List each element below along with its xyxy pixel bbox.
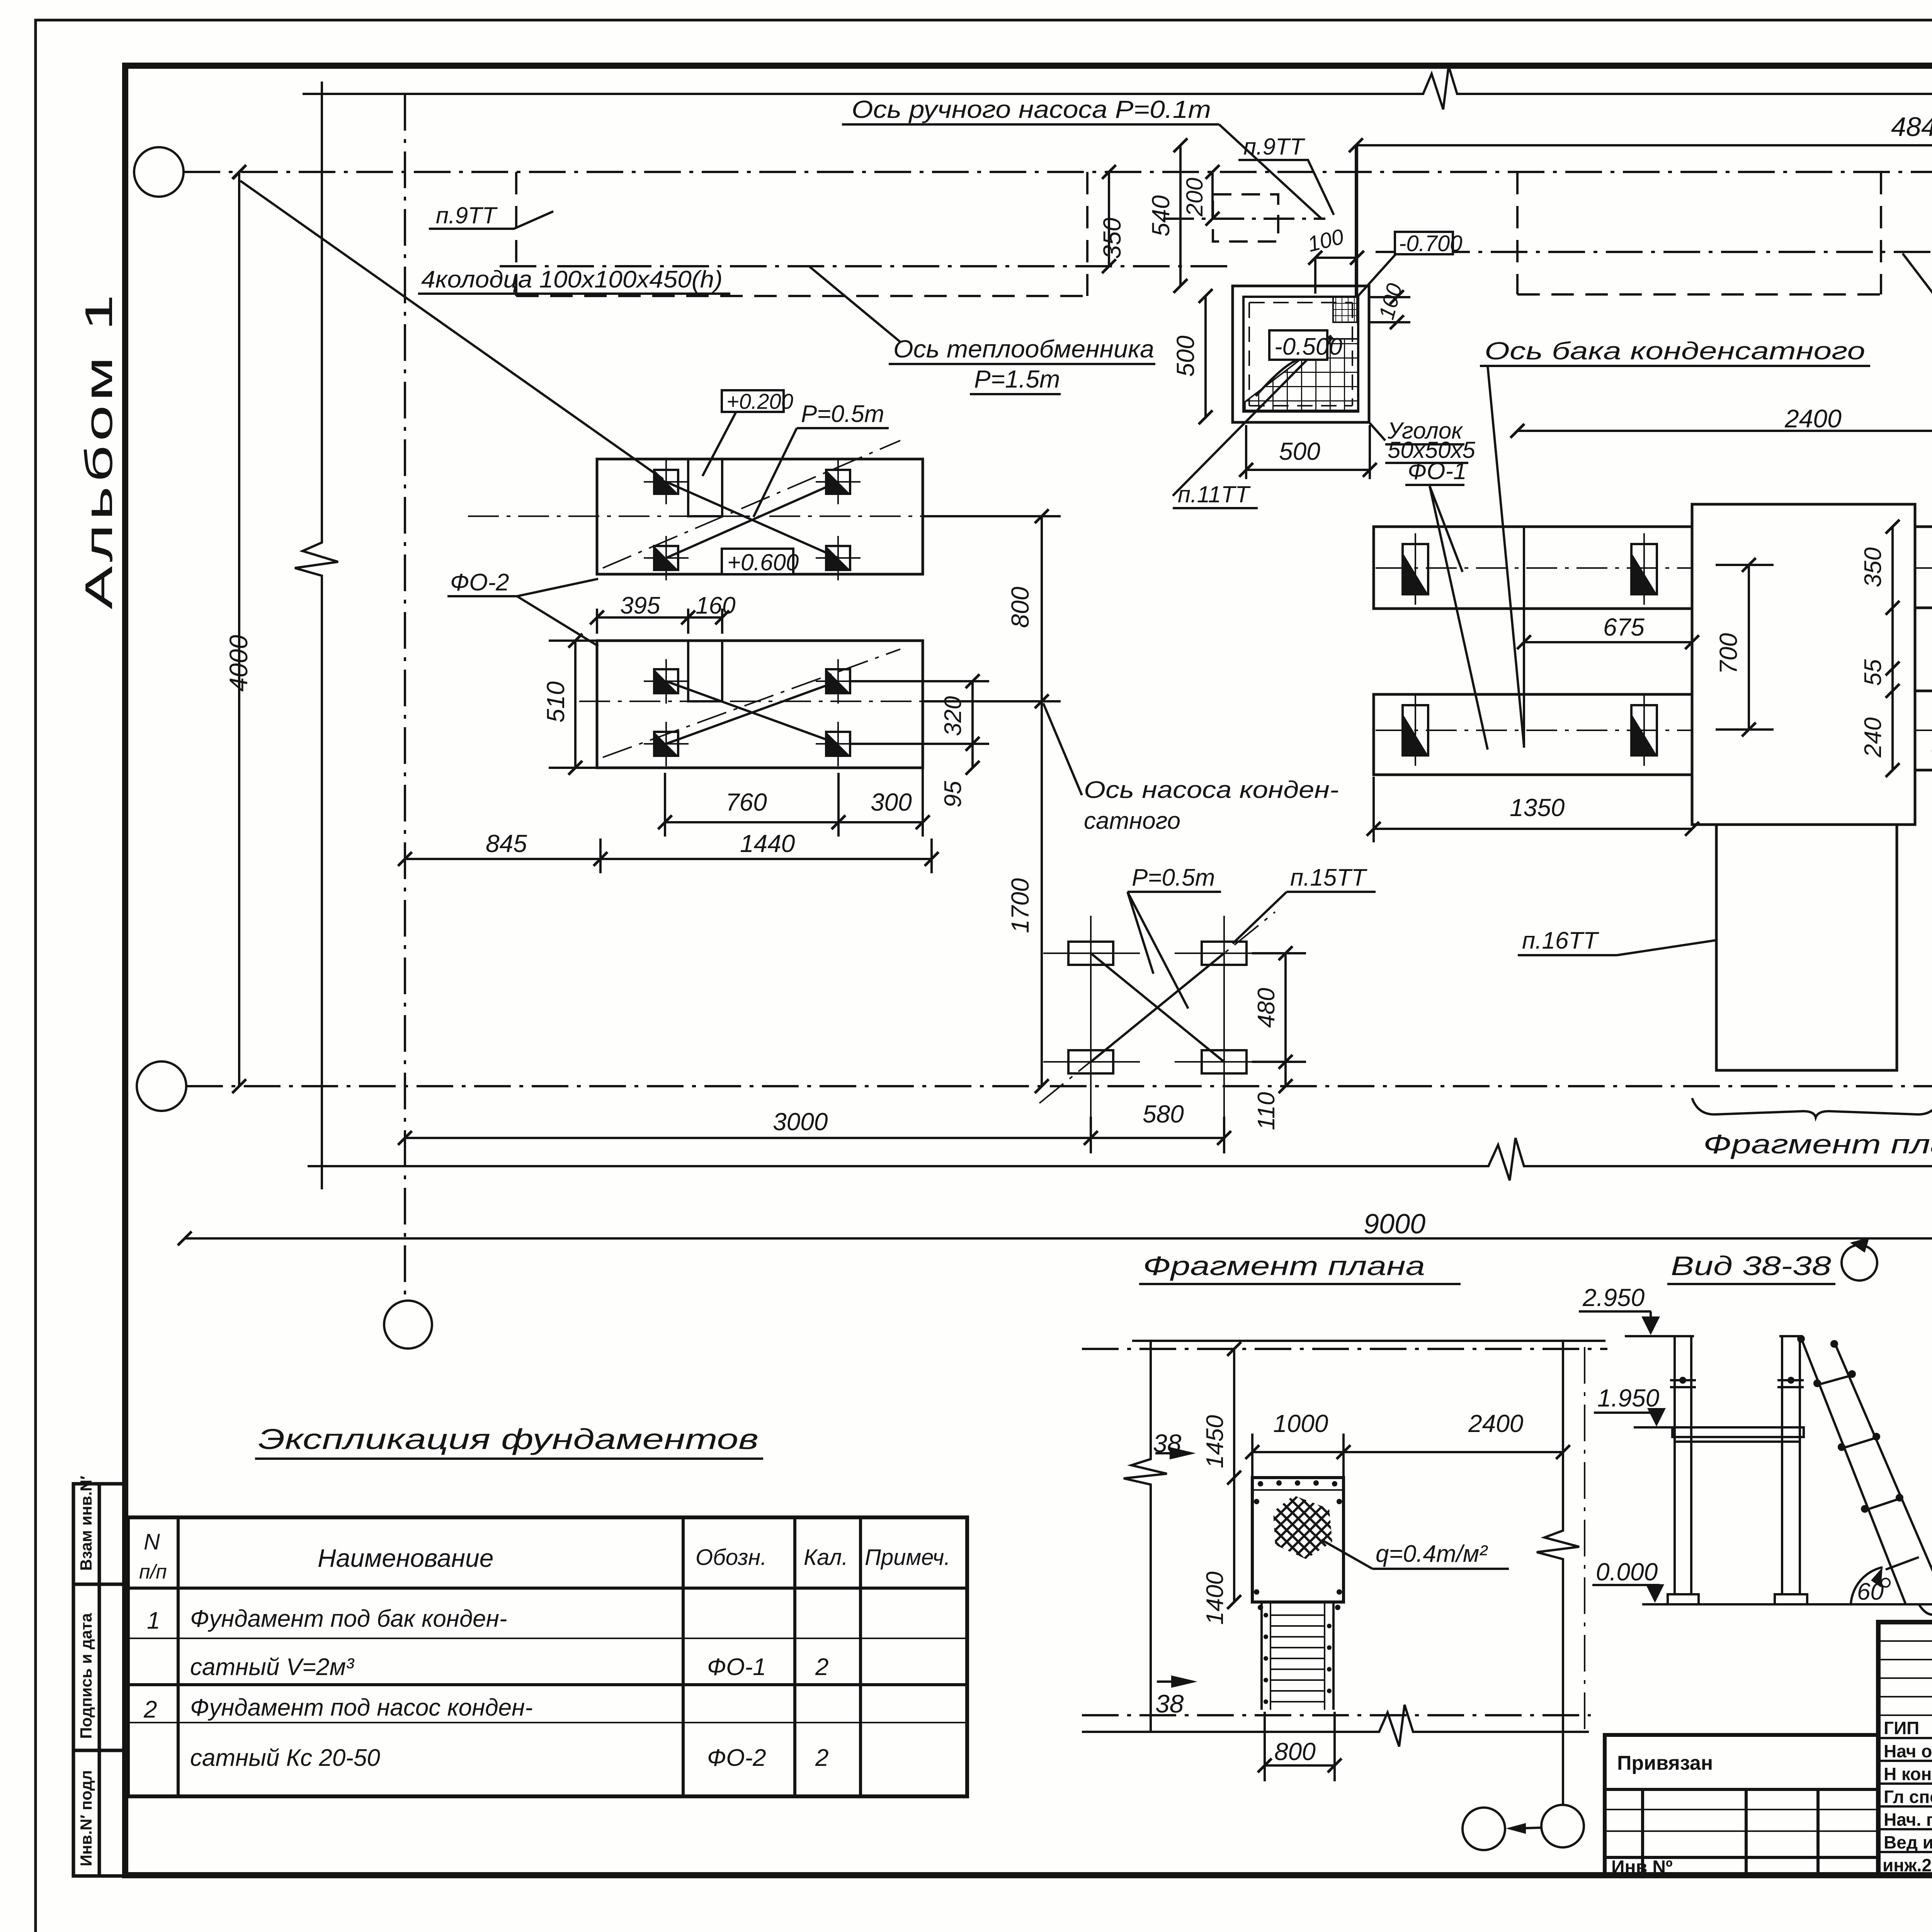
- center vertical between slabs: [1523, 527, 1525, 748]
- svg-text:480: 480: [1253, 988, 1280, 1028]
- svg-text:700: 700: [1714, 633, 1742, 674]
- dim 4840 (top): [1349, 138, 1932, 298]
- label -0.700 (boxed): [1395, 232, 1453, 254]
- svg-text:4840: 4840: [1891, 112, 1932, 142]
- svg-text:Нач отд.: Нач отд.: [1884, 1741, 1932, 1761]
- svg-text:Обозн.: Обозн.: [696, 1545, 767, 1570]
- svg-text:Вид 38-38: Вид 38-38: [1671, 1251, 1831, 1281]
- svg-text:510: 510: [542, 681, 570, 723]
- svg-text:2.950: 2.950: [1582, 1284, 1645, 1311]
- dim 845 / 1440: [398, 838, 939, 873]
- svg-text:760: 760: [726, 788, 767, 816]
- svg-text:сатный Кс 20-50: сатный Кс 20-50: [190, 1745, 380, 1771]
- dim 1350: [1367, 777, 1699, 842]
- svg-text:п.9ТТ: п.9ТТ: [1243, 134, 1306, 160]
- svg-text:500: 500: [1172, 335, 1199, 377]
- svg-text:2: 2: [143, 1696, 157, 1723]
- ground line: [1642, 1603, 1932, 1605]
- label +0.600 boxed: [722, 549, 793, 574]
- tank anchors (tall): [1403, 533, 1428, 605]
- svg-text:-0.500: -0.500: [1274, 333, 1342, 360]
- svg-text:сатного: сатного: [1084, 808, 1180, 834]
- svg-text:110: 110: [1253, 1092, 1280, 1130]
- dim 540: [1173, 138, 1187, 293]
- signature table: [1878, 1622, 1932, 1875]
- svg-text:п.16ТТ: п.16ТТ: [1522, 927, 1599, 954]
- svg-text:Примеч.: Примеч.: [865, 1545, 950, 1570]
- svg-text:500: 500: [1279, 437, 1320, 465]
- right dashed duct rectangles p.9TT: [1517, 172, 1932, 294]
- dim 1450 / 1400: [1227, 1342, 1241, 1609]
- svg-text:800: 800: [1006, 587, 1034, 628]
- dim 700 (inside tank): [1716, 558, 1774, 736]
- svg-text:300: 300: [871, 788, 912, 816]
- svg-text:1400: 1400: [1202, 1571, 1228, 1625]
- left stamp boxes: [73, 1484, 125, 1876]
- dim 200 (hand pump): [1206, 165, 1219, 226]
- brace under tank: [1692, 1098, 1932, 1117]
- stair stringer (inclined slide): [1801, 1338, 1932, 1615]
- dim 760 / 300: [658, 769, 930, 837]
- left dashed duct rectangle p.9TT: [516, 172, 1087, 296]
- anchor wells FO-2 upper slab: [644, 460, 689, 504]
- axis of lower slab: [579, 701, 1032, 702]
- svg-text:200: 200: [1182, 178, 1207, 217]
- svg-text:инж.2кат.: инж.2кат.: [1883, 1855, 1932, 1875]
- svg-text:ФО-1: ФО-1: [1408, 458, 1467, 485]
- svg-text:Взам инв.N′: Взам инв.N′: [77, 1476, 95, 1571]
- heat exchanger axis (dash-dot): [500, 265, 1233, 267]
- svg-text:Кал.: Кал.: [804, 1545, 848, 1570]
- svg-text:q=0.4т/м²: q=0.4т/м²: [1376, 1541, 1488, 1567]
- angle frame square: [1233, 286, 1369, 422]
- axis bubble bottom column: [384, 1301, 432, 1349]
- condensate tank rect: [1692, 504, 1915, 825]
- svg-text:4000: 4000: [224, 635, 253, 692]
- svg-text:ФО-2: ФО-2: [450, 569, 509, 596]
- angle 60 arc: [1851, 1567, 1883, 1604]
- X diagonals upper slab: [666, 482, 838, 558]
- FO-2 lower slab: [597, 641, 923, 768]
- svg-text:1700: 1700: [1006, 878, 1034, 933]
- svg-text:1000: 1000: [1273, 1410, 1328, 1437]
- svg-text:240: 240: [1860, 718, 1886, 758]
- svg-text:Инв Nº: Инв Nº: [1611, 1857, 1673, 1878]
- svg-text:55: 55: [1860, 659, 1886, 686]
- svg-text:800: 800: [1274, 1738, 1316, 1765]
- svg-text:сатный V=2м³: сатный V=2м³: [190, 1654, 355, 1680]
- svg-text:1: 1: [147, 1607, 160, 1634]
- dim chain 350/55/240: [1886, 520, 1900, 777]
- top axis line (dash-dot): [184, 171, 1932, 173]
- dim 9000 (bottom): [178, 1231, 1932, 1245]
- label -0.500 (boxed): [1269, 330, 1327, 360]
- right post: [1775, 1336, 1807, 1604]
- dim 395 / 160: [590, 609, 729, 634]
- svg-text:2400: 2400: [1468, 1410, 1524, 1437]
- platform beam: [1672, 1427, 1804, 1442]
- svg-text:1440: 1440: [740, 830, 795, 857]
- top boundary line: [303, 66, 1932, 109]
- svg-text:ГИП: ГИП: [1884, 1718, 1919, 1738]
- svg-text:ФО-1: ФО-1: [707, 1654, 766, 1680]
- grid plate (big, lower right): [1245, 339, 1358, 410]
- stairs plan: [1262, 1602, 1333, 1710]
- hand pump dashed rect: [1213, 194, 1278, 241]
- privyazan table: [1605, 1735, 1878, 1875]
- dim 480 / 110: [1252, 946, 1306, 1093]
- svg-text:4колодца 100х100х450(h): 4колодца 100х100х450(h): [421, 266, 723, 293]
- dim 675: [1517, 635, 1699, 649]
- svg-text:2: 2: [815, 1745, 828, 1771]
- dim 2400 / 1700 (above tank): [1510, 424, 1932, 438]
- svg-text:ФО-2: ФО-2: [707, 1745, 766, 1771]
- svg-text:540: 540: [1147, 195, 1175, 236]
- svg-text:Ось насоса конден-: Ось насоса конден-: [1084, 777, 1339, 803]
- dim 350 (left, between axes): [1102, 165, 1116, 273]
- svg-text:38: 38: [1155, 1689, 1184, 1718]
- svg-text:+0.200: +0.200: [726, 389, 793, 413]
- svg-text:+0.600: +0.600: [727, 549, 799, 575]
- diagonal to p.11TT: [1173, 335, 1331, 496]
- grid plate (small, top right): [1333, 297, 1357, 322]
- view direction circle: [1842, 1245, 1877, 1281]
- label +0.200 boxed: [722, 390, 784, 412]
- svg-text:2: 2: [815, 1654, 828, 1680]
- right slabs: [1915, 527, 1932, 770]
- table grid: [128, 1517, 967, 1796]
- left slabs: [1374, 527, 1692, 775]
- left post: [1668, 1336, 1699, 1604]
- svg-text:95: 95: [940, 781, 966, 808]
- right boundary of fragment with break: [1537, 1341, 1579, 1805]
- pump row axis line (dash-dot): [186, 1085, 1932, 1087]
- svg-text:675: 675: [1603, 613, 1645, 641]
- svg-text:350: 350: [1098, 218, 1126, 259]
- FO-2 upper slab: [597, 459, 923, 574]
- svg-text:Нач. гр.: Нач. гр.: [1884, 1810, 1932, 1830]
- gidrozatvor axis (dash-dot): [1376, 251, 1932, 253]
- section arrow 38 lower: [1157, 1680, 1184, 1683]
- svg-text:1.950: 1.950: [1597, 1384, 1660, 1412]
- platform slab: [1252, 1478, 1344, 1602]
- svg-text:-0.700: -0.700: [1399, 231, 1462, 256]
- svg-text:Р=0.5m: Р=0.5m: [1132, 864, 1215, 891]
- svg-text:160: 160: [696, 592, 735, 619]
- svg-text:Ось ручного насоса Р=0.1m: Ось ручного насоса Р=0.1m: [852, 95, 1211, 123]
- fragment boundary lines: [1124, 1341, 1167, 1732]
- svg-text:Привязан: Привязан: [1617, 1752, 1713, 1774]
- axis bubble A2 left: [137, 1061, 186, 1111]
- svg-text:Н контр.: Н контр.: [1884, 1764, 1932, 1784]
- svg-text:Вед инж.: Вед инж.: [1884, 1832, 1932, 1852]
- svg-text:9000: 9000: [1364, 1209, 1425, 1240]
- axis bubble A1 top-left: [134, 147, 184, 197]
- bolts on platform edges: [1254, 1480, 1342, 1610]
- dim 100 (top of grid plate): [1308, 145, 1364, 297]
- tick on top axis: [233, 165, 246, 179]
- svg-text:38: 38: [1153, 1429, 1182, 1458]
- svg-text:Фрагмент плана: Фрагмент плана: [1143, 1251, 1425, 1281]
- dim 4000 (left vertical): [232, 165, 246, 1093]
- svg-text:Фрагмент плана: Фрагмент плана: [1703, 1129, 1932, 1159]
- svg-text:Подпись и дата: Подпись и дата: [77, 1613, 95, 1739]
- dim 500 (left of square): [1199, 289, 1213, 424]
- dim 800 / 1700 (right of FO-2): [923, 509, 1061, 1093]
- dim 320 / 95: [850, 674, 989, 775]
- svg-text:1450: 1450: [1202, 1415, 1228, 1468]
- svg-text:60: 60: [1857, 1578, 1884, 1605]
- dim 100 (right of grid plate, rotated): [1369, 290, 1410, 329]
- svg-text:Р=0.5m: Р=0.5m: [801, 401, 884, 427]
- dim 800 (stairs): [1258, 1712, 1342, 1781]
- X diagonals lower slab: [666, 681, 838, 744]
- svg-text:395: 395: [620, 592, 660, 619]
- dim 500 (bottom of square): [1239, 425, 1377, 479]
- svg-text:Наименование: Наименование: [318, 1544, 494, 1572]
- svg-text:N: N: [144, 1529, 160, 1554]
- axes through slabs (dash-dot): [1376, 567, 1692, 569]
- svg-text:п.9ТТ: п.9ТТ: [436, 202, 498, 228]
- section arrow 38 upper: [1155, 1452, 1182, 1454]
- axis of upper slab: [468, 515, 1032, 517]
- svg-text:320: 320: [940, 696, 966, 736]
- vertical axis through FO-2 column (dash-dot): [404, 94, 406, 1300]
- svg-text:580: 580: [1143, 1100, 1184, 1128]
- axis bubbles with arrow (bottom): [1463, 1808, 1505, 1850]
- dim 3000 / 580: [398, 1117, 1231, 1153]
- svg-text:Ось теплообменника: Ось теплообменника: [893, 335, 1154, 363]
- bottom boundary line with break: [308, 1138, 1932, 1180]
- dim 510: [549, 634, 597, 775]
- svg-text:Ось бака конденсатного: Ось бака конденсатного: [1485, 337, 1865, 365]
- svg-text:Фундамент под бак конден-: Фундамент под бак конден-: [190, 1605, 507, 1632]
- grating hatch on platform: [1273, 1495, 1332, 1559]
- svg-text:2400: 2400: [1784, 404, 1842, 433]
- tall rect below tank: [1716, 825, 1897, 1070]
- svg-text:1350: 1350: [1510, 794, 1565, 821]
- left boundary line with break: [295, 82, 338, 1189]
- svg-text:3000: 3000: [773, 1108, 828, 1136]
- svg-text:845: 845: [486, 830, 527, 857]
- svg-text:350: 350: [1860, 548, 1886, 587]
- svg-text:п.11ТТ: п.11ТТ: [1178, 481, 1251, 507]
- dim 1000 / 2400 (platform top): [1245, 1434, 1570, 1478]
- svg-text:Гл спец.: Гл спец.: [1884, 1787, 1932, 1807]
- svg-text:0.000: 0.000: [1596, 1558, 1658, 1586]
- svg-text:п/п: п/п: [139, 1561, 167, 1583]
- svg-text:п.15ТТ: п.15ТТ: [1290, 864, 1367, 891]
- svg-text:Инв.N′ подл: Инв.N′ подл: [77, 1770, 95, 1866]
- svg-text:Р=1.5m: Р=1.5m: [974, 365, 1060, 393]
- svg-text:Фундамент под насос конден-: Фундамент под насос конден-: [190, 1694, 533, 1721]
- svg-text:Альбом 1: Альбом 1: [77, 291, 121, 609]
- svg-text:Экспликация фундаментов: Экспликация фундаментов: [258, 1423, 759, 1455]
